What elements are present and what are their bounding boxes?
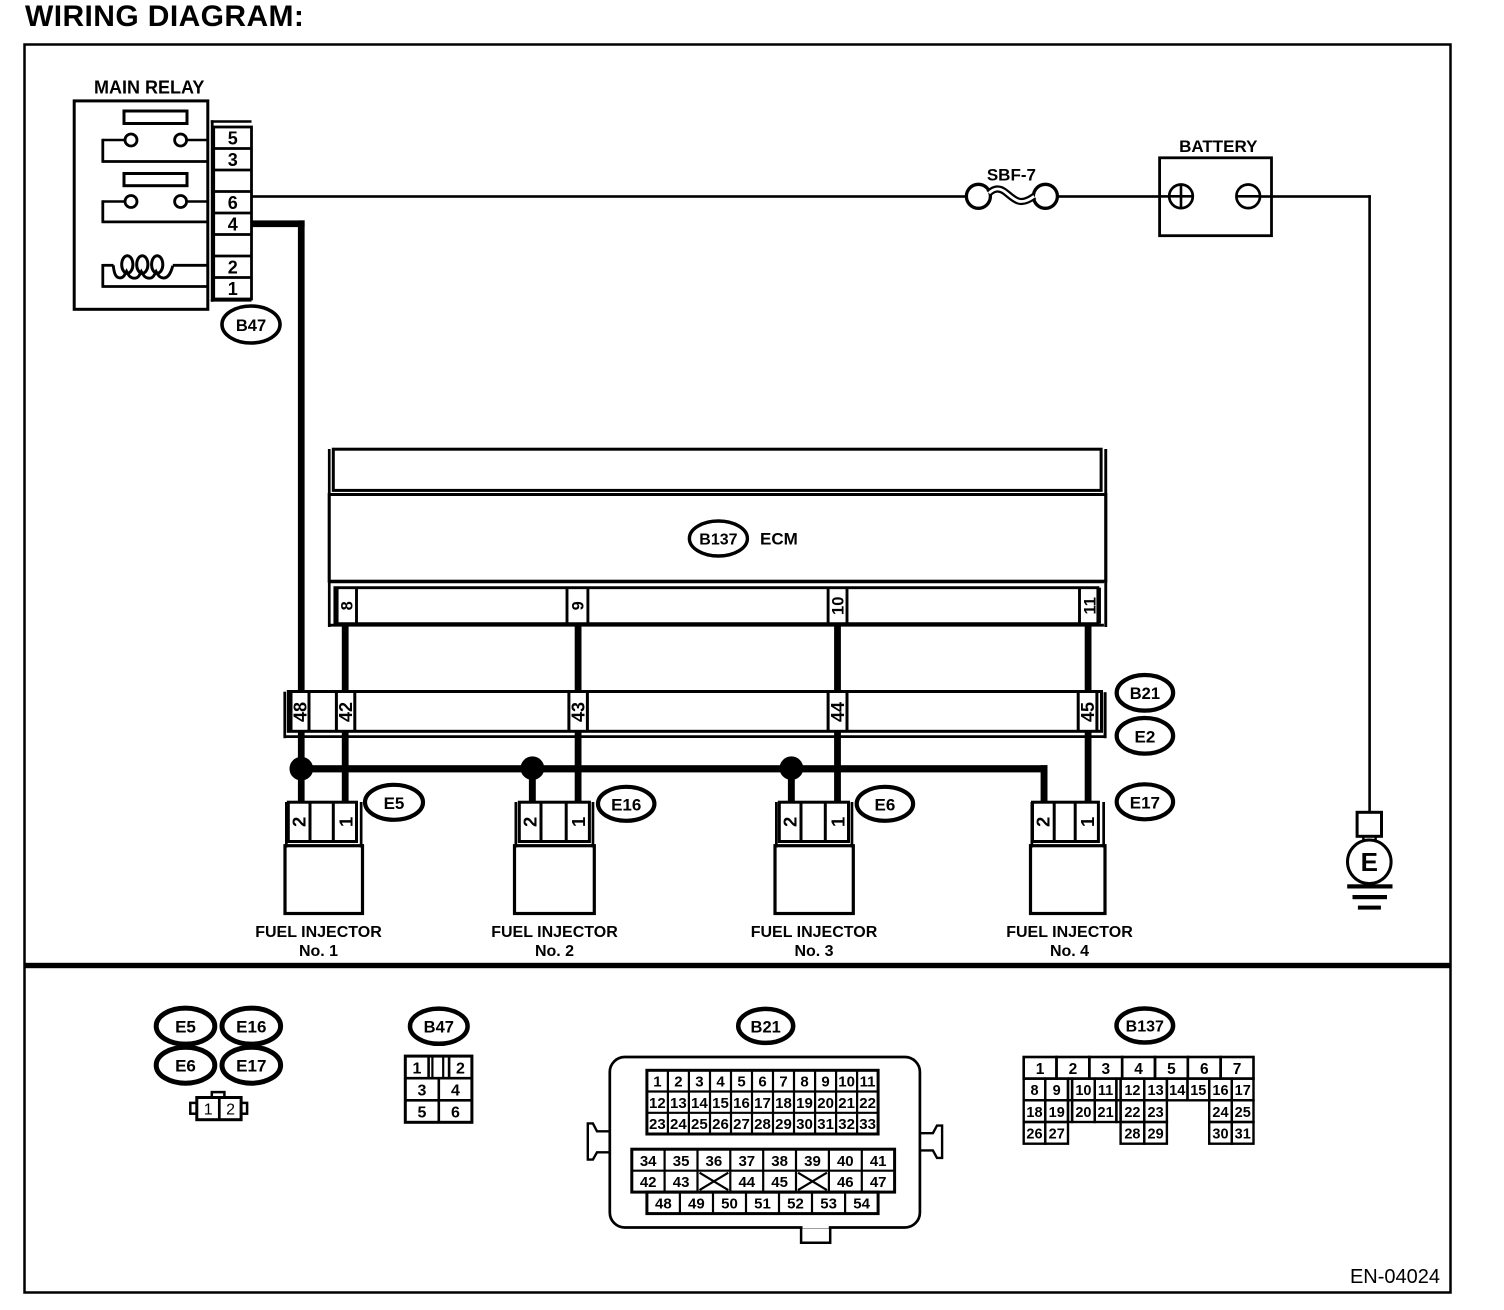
B137 pin 18 — [1026, 1105, 1042, 1121]
B137 pin 4 — [1134, 1061, 1143, 1078]
connector label E5 — [365, 785, 423, 820]
B137 pin 21 — [1098, 1105, 1114, 1121]
B137 pin 5 — [1167, 1061, 1176, 1078]
connector strip B21/E2 housing — [283, 692, 1106, 739]
svg-text:13: 13 — [670, 1095, 687, 1112]
svg-text:13: 13 — [1148, 1083, 1164, 1099]
wire bus to injector3 pin2 (thick) — [788, 768, 795, 802]
B137 pin 11 — [1098, 1083, 1113, 1099]
svg-text:No. 2: No. 2 — [535, 943, 574, 960]
B21 pin 18 — [775, 1095, 792, 1112]
svg-text:27: 27 — [733, 1116, 750, 1133]
svg-text:11: 11 — [1098, 1083, 1113, 1099]
strip pin 43 — [569, 692, 589, 732]
B137 pin 3 — [1101, 1061, 1110, 1078]
B137 pin 24 — [1212, 1105, 1228, 1121]
legend B21 bottom tab — [801, 1225, 830, 1243]
svg-text:3: 3 — [695, 1074, 703, 1091]
B137 pin 20 — [1075, 1105, 1091, 1121]
fuel injector No.3 label — [751, 924, 878, 960]
svg-text:1: 1 — [204, 1102, 213, 1119]
ECM pin 10 — [828, 588, 847, 624]
B21 pin 54 — [853, 1196, 870, 1213]
B137 pin 6 — [1200, 1061, 1209, 1078]
B137 pin 19 — [1049, 1105, 1065, 1121]
svg-text:43: 43 — [569, 702, 589, 722]
B21 pin 32 — [838, 1116, 855, 1133]
legend B47 pin 1 — [413, 1061, 422, 1078]
svg-text:9: 9 — [821, 1074, 829, 1091]
B21 pin 36 — [706, 1153, 723, 1170]
B21 pin 2 — [674, 1074, 682, 1091]
B137 pin 31 — [1235, 1127, 1251, 1143]
legend E-connector pinout — [190, 1092, 247, 1120]
B21 pin 53 — [820, 1196, 837, 1213]
fuel injector No.2 label — [491, 924, 618, 960]
svg-text:E2: E2 — [1135, 727, 1156, 746]
svg-text:2: 2 — [780, 817, 801, 827]
B137 pin 30 — [1212, 1127, 1228, 1143]
B21 pin 8 — [800, 1074, 808, 1091]
svg-text:4: 4 — [1134, 1061, 1143, 1078]
wire ECM pin 11 to strip pin 45 (thick) — [1085, 625, 1092, 692]
B21 pin 38 — [771, 1153, 788, 1170]
B137 pin 2 — [1069, 1061, 1078, 1078]
B137 pin 28 — [1124, 1127, 1140, 1143]
legend B47 pin 4 — [451, 1083, 460, 1100]
B137 pin 15 — [1190, 1083, 1206, 1099]
svg-text:No. 4: No. 4 — [1050, 943, 1089, 960]
B21 pin 34 — [640, 1153, 657, 1170]
svg-text:2: 2 — [226, 1102, 235, 1119]
B21 pin 39 — [804, 1153, 821, 1170]
svg-text:12: 12 — [1124, 1083, 1140, 1099]
svg-text:20: 20 — [1075, 1105, 1091, 1121]
pin 5 — [228, 128, 238, 148]
B137 pin 25 — [1235, 1105, 1251, 1121]
svg-text:1: 1 — [568, 817, 589, 827]
B21 pin 1 — [653, 1074, 661, 1091]
svg-text:23: 23 — [649, 1116, 666, 1133]
svg-text:39: 39 — [804, 1153, 821, 1170]
svg-text:54: 54 — [853, 1196, 870, 1213]
section divider line — [25, 963, 1451, 968]
wire battery to ground drop — [1260, 195, 1371, 812]
main relay box — [74, 101, 208, 309]
svg-text:18: 18 — [775, 1095, 792, 1112]
svg-text:1: 1 — [827, 817, 848, 827]
svg-text:46: 46 — [837, 1174, 854, 1191]
B21 pin 9 — [821, 1074, 829, 1091]
B21 pin 13 — [670, 1095, 687, 1112]
svg-text:30: 30 — [1212, 1127, 1228, 1143]
legend label B137 — [1117, 1009, 1174, 1043]
B21 pin 26 — [712, 1116, 729, 1133]
wire pin45 to injector4 pin1 (thick) — [1085, 732, 1092, 802]
pin 6 — [228, 193, 238, 213]
svg-text:4: 4 — [716, 1074, 725, 1091]
svg-text:31: 31 — [817, 1116, 834, 1133]
B21 pin 11 — [860, 1074, 876, 1091]
fuel injector No.3 connector — [775, 802, 853, 848]
legend B47 pin 3 — [418, 1083, 427, 1100]
svg-text:4: 4 — [451, 1083, 460, 1100]
svg-text:28: 28 — [1124, 1127, 1140, 1143]
svg-text:7: 7 — [1233, 1061, 1242, 1078]
B21 pin 40 — [837, 1153, 854, 1170]
svg-text:2: 2 — [288, 817, 309, 827]
svg-text:42: 42 — [640, 1174, 657, 1191]
svg-text:20: 20 — [817, 1095, 834, 1112]
svg-text:7: 7 — [779, 1074, 787, 1091]
B21 pin 29 — [775, 1116, 792, 1133]
svg-text:SBF-7: SBF-7 — [987, 166, 1036, 185]
svg-text:4: 4 — [228, 214, 238, 234]
svg-text:6: 6 — [228, 193, 238, 213]
legend B21 left tab — [588, 1123, 610, 1159]
connector label E16 — [598, 787, 654, 821]
wire pin48 to injector1 pin2 (thick) — [298, 732, 305, 803]
svg-text:25: 25 — [1235, 1105, 1251, 1121]
svg-text:24: 24 — [1212, 1105, 1228, 1121]
title WIRING DIAGRAM — [25, 0, 304, 33]
relay switch contacts 2 — [102, 196, 207, 222]
wire ECM pin 10 to strip pin 44 (thick) — [834, 625, 841, 692]
B21 pin 20 — [817, 1095, 834, 1112]
strip pin 42 — [336, 692, 356, 732]
svg-text:E6: E6 — [175, 1057, 196, 1076]
B137 pin 9 — [1053, 1083, 1061, 1099]
wire relay pin4 to ECM pin48 (thick) — [252, 220, 305, 691]
B21 pin 33 — [859, 1116, 876, 1133]
wire pin43 to injector2 pin1 (thick) — [575, 732, 582, 803]
legend label B47 — [410, 1009, 468, 1044]
strip pin 45 — [1078, 692, 1098, 732]
svg-text:35: 35 — [673, 1153, 690, 1170]
connector label E2 — [1117, 718, 1173, 754]
wire ECM pin 9 to strip pin 43 (thick) — [575, 625, 582, 692]
legend B47 pin 5 — [418, 1105, 427, 1122]
fuel injector No.4 connector — [1031, 802, 1106, 848]
svg-text:FUEL INJECTOR: FUEL INJECTOR — [255, 924, 382, 941]
svg-text:FUEL INJECTOR: FUEL INJECTOR — [751, 924, 878, 941]
svg-text:37: 37 — [738, 1153, 755, 1170]
svg-text:5: 5 — [228, 128, 238, 148]
svg-text:5: 5 — [418, 1105, 427, 1122]
svg-text:18: 18 — [1026, 1105, 1042, 1121]
svg-text:45: 45 — [771, 1174, 788, 1191]
B137 pin 8 — [1030, 1083, 1038, 1099]
svg-text:50: 50 — [721, 1196, 738, 1213]
svg-text:19: 19 — [796, 1095, 813, 1112]
svg-text:24: 24 — [670, 1116, 687, 1133]
B21 pin 27 — [733, 1116, 750, 1133]
legend label E16 — [222, 1008, 281, 1044]
relay switch contacts 1 — [102, 134, 207, 162]
B137 pin 26 — [1026, 1127, 1042, 1143]
svg-text:22: 22 — [859, 1095, 876, 1112]
svg-text:31: 31 — [1235, 1127, 1251, 1143]
B137 pin 1 — [1036, 1061, 1045, 1078]
svg-text:2: 2 — [228, 257, 238, 277]
svg-text:32: 32 — [838, 1116, 855, 1133]
B21 pin 45 — [771, 1174, 788, 1191]
svg-text:2: 2 — [520, 817, 541, 827]
svg-text:E16: E16 — [236, 1018, 266, 1037]
svg-text:3: 3 — [1101, 1061, 1110, 1078]
B21 blocked cell — [700, 1173, 729, 1190]
legend label E17 — [222, 1047, 281, 1083]
svg-text:10: 10 — [829, 597, 847, 615]
svg-text:48: 48 — [655, 1196, 672, 1213]
svg-text:B21: B21 — [1130, 685, 1160, 703]
B137 pin 27 — [1049, 1127, 1065, 1143]
svg-text:BATTERY: BATTERY — [1179, 137, 1258, 156]
main relay label — [94, 78, 204, 98]
B21 pin 10 — [838, 1074, 855, 1091]
svg-text:41: 41 — [870, 1153, 887, 1170]
junction node injector3 — [780, 757, 803, 780]
B21 pin 14 — [691, 1095, 708, 1112]
connector label B47 — [222, 306, 280, 343]
drawing number EN-04024 — [1350, 1266, 1440, 1288]
legend B21 upper pin grid 1-33 — [647, 1070, 878, 1134]
ECM label B137 — [689, 521, 747, 556]
svg-text:B47: B47 — [424, 1019, 454, 1037]
svg-text:21: 21 — [1098, 1105, 1114, 1121]
B21 pin 52 — [787, 1196, 804, 1213]
svg-text:15: 15 — [1190, 1083, 1206, 1099]
B21 pin 41 — [870, 1153, 887, 1170]
svg-text:1: 1 — [335, 817, 356, 827]
svg-text:1: 1 — [413, 1061, 422, 1078]
legend B21 right tab — [920, 1126, 942, 1158]
svg-text:43: 43 — [673, 1174, 690, 1191]
svg-text:21: 21 — [838, 1095, 855, 1112]
svg-text:EN-04024: EN-04024 — [1350, 1266, 1440, 1288]
ECM housing — [328, 449, 1107, 627]
fuel injector No.1 connector — [285, 802, 363, 848]
B21 pin 47 — [870, 1174, 887, 1191]
B21 blocked cell — [798, 1173, 827, 1190]
svg-text:No. 1: No. 1 — [299, 943, 338, 960]
ECM text — [760, 530, 798, 549]
B21 pin 17 — [754, 1095, 771, 1112]
wire ECM pin 8 to strip pin 42 (thick) — [342, 625, 349, 692]
B137 pin 14 — [1169, 1083, 1185, 1099]
svg-text:44: 44 — [828, 702, 848, 722]
legend label B21 — [738, 1009, 793, 1043]
svg-text:26: 26 — [712, 1116, 729, 1133]
ECM pin strip — [329, 582, 1104, 625]
svg-text:23: 23 — [1148, 1105, 1164, 1121]
svg-text:12: 12 — [649, 1095, 666, 1112]
B21 pin 35 — [673, 1153, 690, 1170]
junction node injector1 — [290, 757, 313, 780]
svg-text:19: 19 — [1049, 1105, 1065, 1121]
B21 pin 48 — [655, 1196, 672, 1213]
relay contact bar 1 — [124, 111, 187, 124]
svg-text:11: 11 — [1081, 597, 1099, 614]
svg-text:6: 6 — [451, 1105, 460, 1122]
svg-text:8: 8 — [800, 1074, 808, 1091]
svg-text:2: 2 — [456, 1061, 465, 1078]
svg-text:FUEL INJECTOR: FUEL INJECTOR — [491, 924, 618, 941]
svg-text:B47: B47 — [236, 317, 266, 335]
svg-text:10: 10 — [838, 1074, 855, 1091]
svg-text:48: 48 — [290, 702, 310, 722]
legend B21 pin row 48-54 — [647, 1192, 878, 1214]
svg-text:40: 40 — [837, 1153, 854, 1170]
pin 1 — [228, 279, 238, 299]
B21 pin 37 — [738, 1153, 755, 1170]
B21 pin 23 — [649, 1116, 666, 1133]
svg-text:17: 17 — [754, 1095, 771, 1112]
B21 pin 25 — [691, 1116, 708, 1133]
svg-text:3: 3 — [228, 150, 238, 170]
svg-text:10: 10 — [1075, 1083, 1091, 1099]
svg-text:5: 5 — [737, 1074, 745, 1091]
B137 pin 7 — [1233, 1061, 1242, 1078]
svg-text:6: 6 — [758, 1074, 766, 1091]
svg-text:52: 52 — [787, 1196, 804, 1213]
svg-text:29: 29 — [775, 1116, 792, 1133]
svg-text:E: E — [1361, 847, 1378, 877]
svg-text:45: 45 — [1078, 702, 1098, 722]
battery — [1160, 137, 1272, 236]
B21 pin 31 — [817, 1116, 834, 1133]
B137 pin 29 — [1148, 1127, 1164, 1143]
svg-text:E17: E17 — [1130, 793, 1160, 812]
junction node injector2 — [521, 757, 544, 780]
fuel injector No.2 connector — [515, 802, 595, 848]
ground bus wire (thick) — [298, 765, 1048, 802]
B21 pin 50 — [721, 1196, 738, 1213]
B137 pin 10 — [1075, 1083, 1091, 1099]
B21 pin 15 — [712, 1095, 729, 1112]
fuel injector No.2 body — [515, 846, 595, 914]
svg-text:42: 42 — [336, 702, 356, 722]
svg-text:3: 3 — [418, 1083, 427, 1100]
connector B47 pin cells — [214, 127, 252, 299]
legend B21 lower pin grid 34-47 — [632, 1149, 895, 1192]
svg-text:B137: B137 — [699, 532, 737, 549]
svg-text:17: 17 — [1235, 1083, 1251, 1099]
B21 pin 6 — [758, 1074, 766, 1091]
svg-text:E5: E5 — [384, 794, 405, 813]
svg-text:9: 9 — [1053, 1083, 1061, 1099]
pin 3 — [228, 150, 238, 170]
svg-text:8: 8 — [339, 601, 357, 610]
B137 pin 12 — [1124, 1083, 1140, 1099]
svg-text:38: 38 — [771, 1153, 788, 1170]
svg-text:E16: E16 — [611, 795, 641, 814]
fuel injector No.4 body — [1031, 846, 1106, 914]
B21 pin 44 — [738, 1174, 755, 1191]
B137 pin 17 — [1235, 1083, 1251, 1099]
svg-text:11: 11 — [860, 1074, 876, 1091]
wire pin42 to injector1 pin1 (thick) — [342, 732, 349, 803]
svg-text:2: 2 — [1069, 1061, 1078, 1078]
B21 pin 7 — [779, 1074, 787, 1091]
connector label E17 — [1117, 784, 1173, 819]
legend B21 connector housing — [610, 1057, 920, 1228]
relay contact bar 2 — [124, 174, 187, 186]
svg-text:25: 25 — [691, 1116, 708, 1133]
B137 pin 16 — [1212, 1083, 1228, 1099]
legend B47 pin 2 — [456, 1061, 465, 1078]
B21 pin 21 — [838, 1095, 855, 1112]
wire relay pin6 to fuse — [252, 195, 968, 198]
ECM pin 11 — [1080, 588, 1100, 624]
fuel injector No.1 body — [285, 846, 363, 914]
connector label E6 — [857, 787, 913, 821]
connector B47 pin strip housing — [211, 120, 252, 302]
svg-text:27: 27 — [1049, 1127, 1065, 1143]
relay coil — [102, 256, 207, 287]
svg-text:1: 1 — [1077, 817, 1098, 827]
B137 pin 13 — [1148, 1083, 1164, 1099]
svg-text:2: 2 — [1033, 817, 1054, 827]
svg-text:ECM: ECM — [760, 530, 798, 549]
svg-text:28: 28 — [754, 1116, 771, 1133]
wire pin44 to injector3 pin1 (thick) — [834, 732, 841, 803]
svg-text:B137: B137 — [1126, 1019, 1164, 1036]
legend B137 pinout grid — [1024, 1057, 1254, 1144]
svg-text:WIRING DIAGRAM:: WIRING DIAGRAM: — [25, 0, 304, 33]
pin 4 — [228, 214, 238, 234]
B21 pin 3 — [695, 1074, 703, 1091]
fuel injector No.4 label — [1006, 924, 1133, 960]
strip pin 48 — [290, 692, 310, 732]
svg-text:E5: E5 — [175, 1018, 196, 1037]
B21 pin 28 — [754, 1116, 771, 1133]
legend label E6 — [156, 1047, 215, 1083]
svg-text:1: 1 — [228, 279, 238, 299]
svg-text:47: 47 — [870, 1174, 887, 1191]
wire fuse to battery — [1057, 195, 1159, 198]
B21 pin 49 — [688, 1196, 705, 1213]
fuse SBF-7 — [966, 166, 1057, 209]
svg-text:E17: E17 — [236, 1057, 266, 1076]
svg-text:22: 22 — [1124, 1105, 1140, 1121]
svg-text:FUEL INJECTOR: FUEL INJECTOR — [1006, 924, 1133, 941]
legend B47 pinout grid — [405, 1056, 472, 1122]
B21 pin 19 — [796, 1095, 813, 1112]
svg-text:2: 2 — [674, 1074, 682, 1091]
svg-text:26: 26 — [1026, 1127, 1042, 1143]
B137 pin 23 — [1148, 1105, 1164, 1121]
pin 2 — [228, 257, 238, 277]
svg-text:16: 16 — [733, 1095, 750, 1112]
B21 pin 12 — [649, 1095, 666, 1112]
B21 pin 42 — [640, 1174, 657, 1191]
ECM pin 9 — [567, 588, 588, 624]
ground E — [1347, 812, 1392, 909]
svg-text:51: 51 — [754, 1196, 771, 1213]
svg-text:44: 44 — [738, 1174, 755, 1191]
legend B47 pin 6 — [451, 1105, 460, 1122]
svg-text:1: 1 — [1036, 1061, 1045, 1078]
B21 pin 16 — [733, 1095, 750, 1112]
B21 pin 4 — [716, 1074, 725, 1091]
strip pin 44 — [828, 692, 848, 732]
svg-text:14: 14 — [1169, 1083, 1185, 1099]
B21 pin 46 — [837, 1174, 854, 1191]
fuel injector No.3 body — [775, 846, 853, 914]
svg-text:49: 49 — [688, 1196, 705, 1213]
svg-text:9: 9 — [569, 601, 587, 610]
